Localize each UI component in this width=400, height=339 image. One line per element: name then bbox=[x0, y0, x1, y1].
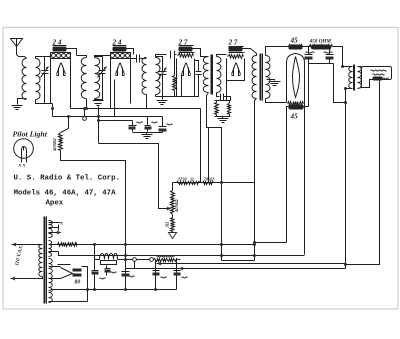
secondary tap resistor feed bbox=[49, 244, 51, 246]
bus y120 bbox=[99, 120, 133, 122]
wire V5 bottom right bbox=[303, 106, 309, 108]
junction x97b bbox=[97, 119, 100, 122]
wire term1 to term2 bbox=[137, 259, 151, 261]
wire G2 stem down bbox=[98, 107, 100, 144]
bus A y263 bbox=[157, 263, 346, 265]
transformer T4 secondary bbox=[217, 57, 222, 93]
tube V1 grid cap bbox=[53, 47, 67, 52]
stem2 wire bbox=[176, 260, 178, 290]
svg-text:4000Ω: 4000Ω bbox=[52, 138, 57, 152]
wire x84 link bbox=[84, 109, 86, 117]
arrow tap into divider bbox=[167, 207, 172, 211]
tube V3 label underline bbox=[179, 45, 194, 47]
bus B arrowhead bbox=[179, 267, 184, 271]
ground G2 bbox=[93, 101, 104, 106]
resistor 450ohm label bbox=[309, 39, 332, 45]
ground G6 bbox=[142, 135, 153, 139]
wire T3 primary bottom bbox=[146, 95, 148, 109]
stem2 cap bbox=[174, 271, 181, 276]
terminal circle 1 bbox=[133, 258, 137, 262]
tube V2 grid coil box bbox=[111, 53, 131, 59]
divider 4050 label bbox=[174, 199, 179, 213]
tube V3 envelope left bbox=[176, 59, 178, 97]
junction x94 bottom bbox=[93, 288, 96, 291]
junction x52 bbox=[51, 107, 54, 110]
terminal x84 bbox=[83, 117, 87, 121]
bypass capacitor C7 label bbox=[137, 122, 143, 123]
wire T6 primary top lead bbox=[343, 66, 353, 68]
wire filter vert x94 bbox=[94, 245, 96, 290]
antenna bbox=[11, 39, 27, 59]
cathode capacitor C6 bbox=[228, 103, 231, 115]
power primary bottom lead bbox=[11, 277, 43, 281]
wire T2 primary bottom bbox=[86, 99, 88, 109]
transformer T5 secondary bbox=[266, 56, 271, 99]
wire Ca stems bbox=[308, 47, 310, 64]
wire C9 stem bbox=[162, 117, 164, 133]
svg-text:4050Ω: 4050Ω bbox=[174, 199, 179, 213]
power secondary winding HV bbox=[49, 259, 53, 303]
secondary tap 3 bbox=[49, 231, 62, 235]
tube V1 label underline bbox=[53, 45, 67, 47]
wire staircase 254 bottom bbox=[222, 260, 255, 262]
wire rail left drop bbox=[308, 64, 310, 107]
divider resistor 2250ohm bbox=[177, 182, 201, 185]
divider resistor 700ohm label bbox=[204, 177, 215, 182]
tube V2 cathode leg bbox=[114, 80, 116, 117]
bypass capacitor C9 label bbox=[167, 124, 173, 125]
tube V2 label underline bbox=[113, 45, 127, 47]
junction T6 primary bottom bbox=[344, 87, 347, 90]
wire C4 top stem bbox=[195, 61, 199, 72]
wire C6 stems bbox=[229, 101, 231, 117]
bus A arrowhead bbox=[157, 262, 162, 266]
capacitor C5 bbox=[221, 94, 224, 101]
tube V1 label 24 bbox=[52, 39, 62, 47]
transformer T4 core bbox=[212, 55, 213, 95]
wire bus x345 bbox=[345, 89, 347, 269]
wire VC1 top stem bbox=[44, 57, 46, 71]
tube V5 grid resistor bbox=[289, 45, 303, 50]
loud speaker box bbox=[362, 67, 392, 88]
bus y115 bbox=[53, 116, 163, 118]
wire T1 secondary bottom bbox=[36, 100, 53, 104]
secondary tap 1 bbox=[49, 222, 64, 227]
divider resistor 700ohm bbox=[203, 182, 214, 185]
hum capacitor Ca bbox=[305, 55, 313, 60]
wire choke left bbox=[95, 259, 100, 261]
label 110VAC bbox=[14, 243, 25, 266]
choke shunt cap C11 bbox=[105, 269, 111, 273]
divider resistor 2250 label2 bbox=[157, 256, 175, 257]
wire V5 envelope right drop bbox=[304, 103, 306, 255]
wire term1 down bbox=[126, 262, 136, 269]
secondary bottom tap2 bbox=[49, 301, 51, 303]
divider resistor 2250ohm label bbox=[177, 177, 195, 182]
pilot light bulb bbox=[14, 139, 34, 159]
transformer T4 primary bbox=[203, 57, 208, 93]
wire x52 link bbox=[52, 104, 54, 117]
pilot light leads bbox=[22, 159, 27, 163]
secondary bottom tap1 bbox=[49, 290, 51, 292]
wire V1 grid cap to right bbox=[67, 49, 77, 56]
wire cap row rail bbox=[133, 132, 163, 134]
tube V3 grid coil bbox=[178, 54, 194, 58]
winding resistor on bus bbox=[58, 243, 77, 247]
transformer T1 secondary bbox=[36, 59, 41, 100]
wire T4 primary bottom bbox=[207, 93, 222, 245]
power transformer primary bbox=[39, 245, 43, 277]
ground G3 bbox=[157, 101, 168, 105]
junction bus254 x220 bbox=[220, 254, 223, 257]
tube V2 envelope right bbox=[130, 59, 132, 104]
tube V4 grid cap plate line bbox=[229, 52, 245, 54]
wire staircase 286 bbox=[255, 242, 287, 244]
transformer T6 primary bbox=[349, 67, 353, 89]
junction R3 top bbox=[67, 115, 70, 118]
wire C8 stem bbox=[147, 117, 149, 132]
wire RC bottom rail bbox=[215, 116, 231, 118]
divider top rail bbox=[173, 182, 255, 184]
transformer T5 primary bbox=[252, 56, 257, 99]
junction divider x220 bbox=[220, 181, 223, 184]
wire T2 secondary top bbox=[95, 56, 111, 58]
junction speaker bus bbox=[344, 263, 347, 266]
bypass capacitor C7 bbox=[129, 126, 137, 130]
wire T4 secondary top bbox=[217, 55, 227, 57]
wire chassis box outer bbox=[99, 144, 169, 209]
bus B+ y243 bbox=[51, 244, 255, 246]
tube V4 grid coil bbox=[228, 55, 244, 59]
tube V2 grid cap plate line bbox=[112, 52, 128, 54]
tube V5 label 45 bbox=[290, 37, 299, 45]
wire T3 secondary top bbox=[156, 55, 167, 58]
wire T1 primary bottom to ground bbox=[18, 99, 27, 105]
variable capacitor VC3 bbox=[159, 68, 167, 79]
pilot resistor R3 bbox=[59, 133, 63, 151]
svg-text:2 7: 2 7 bbox=[228, 39, 238, 47]
bypass capacitor C8 label bbox=[152, 122, 158, 123]
tube V3 plate-grid arch bbox=[182, 63, 191, 76]
wire VC2 bottom stem bbox=[95, 74, 103, 100]
wire V2 plate to C2 bbox=[131, 58, 137, 60]
capacitor C12 label bbox=[129, 276, 135, 277]
bypass capacitor C8 bbox=[145, 126, 152, 130]
tube V1 grid coil box bbox=[51, 53, 71, 59]
wire V5 bottom left bbox=[287, 107, 289, 243]
tube V2 envelope left bbox=[110, 59, 112, 109]
tube V3 envelope right bbox=[194, 59, 196, 97]
capacitor C2 bbox=[137, 55, 140, 63]
tube V1 grid cap plate line bbox=[53, 52, 69, 54]
tube V1 envelope left bbox=[50, 59, 52, 104]
wire T5 ground tap bbox=[267, 80, 275, 81]
ground G5 bbox=[269, 82, 281, 86]
divider bottom arrow bbox=[169, 232, 177, 239]
tube V1 plate-grid arch bbox=[57, 63, 66, 76]
junction x97a bbox=[97, 115, 100, 118]
wire V2 grid cap to right bbox=[127, 49, 134, 55]
tube V4 cathode leg bbox=[226, 81, 228, 101]
wire V5 grid res to right bbox=[303, 46, 311, 48]
wire VC2 top stem bbox=[95, 57, 103, 71]
wire T6 primary bottom lead bbox=[346, 88, 353, 90]
filter cap C10 bbox=[92, 271, 99, 275]
loud speaker field resistor bbox=[373, 77, 389, 81]
tube V2 plate-grid arch bbox=[116, 63, 125, 76]
cathode resistor R2 bbox=[215, 103, 219, 115]
divider resistor 4050ohm bbox=[171, 191, 175, 215]
wire x87 link bbox=[87, 290, 89, 302]
hum capacitor Cb bbox=[326, 55, 334, 60]
wire divider left corner bbox=[172, 183, 174, 191]
wire T5 primary bottom bbox=[255, 99, 257, 261]
wire C5 right bbox=[224, 97, 231, 101]
wire T3 bottom rail bbox=[156, 96, 195, 98]
rectifier V6 filament bbox=[61, 268, 73, 279]
wire speaker drop bbox=[346, 81, 380, 265]
divider 300 label bbox=[165, 221, 170, 228]
capacitor C3 bbox=[171, 51, 175, 59]
tube V5 bottom label 45 bbox=[290, 113, 299, 121]
junction bus254 x125 bbox=[124, 254, 127, 257]
svg-text:x: x bbox=[60, 222, 64, 227]
transformer T3 primary bbox=[142, 58, 147, 95]
filter choke core box bbox=[101, 261, 117, 265]
pilot resistor R3 label bbox=[52, 138, 57, 152]
wire bus x220 lower bbox=[221, 245, 223, 261]
wire RC ground stem bbox=[222, 117, 224, 119]
tube V5 filament lens bbox=[293, 57, 300, 98]
svg-text:x x: x x bbox=[18, 163, 26, 169]
bus y108 bbox=[71, 108, 201, 110]
rectifier V6 envelope bbox=[58, 264, 71, 266]
transformer T3 secondary bbox=[156, 58, 161, 95]
junction stem1 bottom bbox=[154, 288, 157, 291]
transformer T6 secondary bbox=[358, 67, 362, 89]
transformer T5 core bbox=[261, 54, 263, 101]
variable capacitor VC2 bbox=[98, 67, 107, 78]
title line3 bbox=[46, 200, 64, 208]
tube V2 grid cap bbox=[113, 47, 127, 52]
wire VC1 bottom stem bbox=[44, 74, 46, 104]
stem2 cap label bbox=[182, 277, 188, 278]
rectifier plate lead bbox=[82, 267, 88, 290]
junction bus243 x220 bbox=[220, 243, 223, 246]
wire C4 bottom stem bbox=[195, 75, 199, 97]
wire T5 secondary top bbox=[266, 47, 289, 56]
hum capacitor Cb label bbox=[324, 52, 333, 53]
bottom bus y289 bbox=[51, 289, 177, 291]
junction T6 primary top bbox=[341, 65, 344, 68]
wire Cb stems bbox=[329, 47, 331, 64]
wire hum caps bottom rail bbox=[309, 63, 334, 65]
tube V4 plate-grid arch bbox=[232, 63, 241, 76]
wire T3 ground stem bbox=[162, 97, 164, 100]
transformer T1 primary bbox=[22, 59, 27, 100]
terminal circle 2 bbox=[150, 258, 154, 262]
title line2 bbox=[14, 190, 117, 198]
tube V2 label 24 bbox=[112, 39, 122, 47]
svg-text:45: 45 bbox=[290, 113, 299, 121]
stem1 wire bbox=[155, 260, 157, 290]
wire C11 stems bbox=[106, 266, 108, 276]
tube V1 envelope right bbox=[70, 59, 72, 109]
wire T2 primary top bbox=[77, 56, 87, 58]
divider resistor 300ohm bbox=[171, 218, 175, 232]
wire divider mid bbox=[172, 215, 174, 218]
transformer T2 primary bbox=[81, 58, 86, 99]
rect filament tap top bbox=[49, 266, 61, 268]
variable capacitor VC1 bbox=[41, 67, 49, 78]
wire C3 right bbox=[175, 54, 177, 56]
junction x125 bottom bbox=[124, 288, 127, 291]
wire C2 to T3 bbox=[140, 58, 147, 60]
junction bus243 x254 bbox=[253, 243, 256, 246]
pilot light X marks bbox=[18, 163, 26, 169]
wire V4 grid cap to right bbox=[243, 49, 257, 56]
bypass capacitor C9 bbox=[159, 127, 167, 132]
wire rail right drop bbox=[334, 64, 346, 103]
svg-text:Pilot Light: Pilot Light bbox=[13, 130, 48, 139]
junction x84a bbox=[83, 107, 88, 110]
wire VC3 top stem bbox=[156, 57, 163, 72]
tube V3 label 27 bbox=[178, 39, 188, 47]
svg-text:450 OHM: 450 OHM bbox=[309, 39, 332, 45]
junction x87 bbox=[86, 243, 96, 291]
loud speaker label bbox=[371, 70, 387, 75]
junction V5 wire bbox=[344, 101, 347, 104]
wire bus x201 bbox=[200, 109, 202, 183]
tube V4 label 27 bbox=[228, 39, 238, 47]
wire rail ground stem bbox=[146, 133, 148, 135]
wire 450ohm right bbox=[333, 47, 343, 67]
wire V3 plate top bbox=[193, 49, 209, 57]
wire choke right bbox=[118, 259, 133, 261]
tube V5 envelope bbox=[287, 54, 305, 103]
power secondary winding mid bbox=[49, 241, 52, 257]
capacitor C4 plates bbox=[196, 72, 202, 75]
grid leak resistor R1 bbox=[173, 76, 177, 91]
wire T2 bottom to ground G2 bbox=[98, 100, 100, 101]
tube V4 label underline bbox=[229, 46, 244, 48]
filter cap C10 label bbox=[100, 278, 106, 279]
svg-text:80: 80 bbox=[75, 280, 81, 286]
wire res right bbox=[178, 259, 181, 261]
junction bus243 x125 bbox=[124, 243, 127, 246]
stem1 cap bbox=[153, 271, 160, 276]
wire R1 top stem bbox=[174, 59, 176, 76]
rectifier label 80 bbox=[75, 280, 81, 286]
junction staircase 286 bbox=[253, 241, 256, 244]
wire R2 stems bbox=[216, 101, 218, 117]
svg-text:3Ω: 3Ω bbox=[165, 221, 170, 228]
svg-text:U. S. Radio & Tel. Corp.: U. S. Radio & Tel. Corp. bbox=[14, 175, 120, 183]
wire R3 bottom bbox=[61, 151, 126, 290]
svg-text:Apex: Apex bbox=[46, 200, 64, 208]
wire C7 stem bbox=[132, 121, 134, 132]
wire divider vert x207 bbox=[208, 128, 210, 183]
stem1 cap label bbox=[161, 277, 167, 278]
wire T4 secondary bottom bbox=[217, 93, 220, 97]
rect filament tap bottom bbox=[49, 278, 61, 280]
tube V4 envelope bbox=[227, 59, 245, 81]
filter choke L1 bbox=[100, 254, 118, 260]
svg-text:Models 46, 46A, 47, 47A: Models 46, 46A, 47, 47A bbox=[14, 190, 117, 198]
transformer T2 secondary bbox=[95, 58, 100, 99]
wire R3 top bbox=[61, 117, 69, 133]
capacitor C12 on x125 bbox=[122, 272, 130, 277]
junction choke x125 bbox=[124, 258, 127, 261]
wire VC3 bottom stem bbox=[162, 75, 164, 97]
power primary top lead bbox=[12, 243, 43, 247]
hum capacitor Ca label bbox=[306, 52, 315, 53]
svg-text:45: 45 bbox=[290, 37, 299, 45]
secondary tap bus254 bbox=[49, 251, 59, 253]
wire T3 secondary bottom bbox=[155, 95, 157, 97]
tube V3 grid cap bbox=[179, 47, 193, 52]
transformer T6 core bbox=[354, 65, 355, 91]
divider resistor bus bbox=[154, 259, 178, 262]
secondary tap 2 bbox=[49, 225, 59, 231]
power transformer core bbox=[45, 217, 47, 304]
bus y254 bbox=[59, 252, 305, 256]
ground G4 bbox=[218, 119, 229, 123]
ground G1 bbox=[12, 106, 23, 110]
tube V4 grid cap bbox=[229, 47, 243, 52]
bus B y268 bbox=[136, 268, 346, 270]
wire R1 bottom stem bbox=[174, 91, 176, 97]
power secondary winding top bbox=[49, 221, 53, 238]
title line1 bbox=[14, 175, 120, 183]
wire T5 secondary bottom bbox=[266, 99, 287, 103]
choke cap C11 label bbox=[111, 272, 117, 273]
tube V3 grid cap plate line bbox=[179, 52, 195, 54]
wire RC top rail bbox=[215, 100, 231, 102]
tube V5 cathode resistor bbox=[288, 102, 304, 110]
wire T1 secondary top bbox=[36, 57, 51, 59]
resistor 450ohm bbox=[309, 45, 333, 50]
bottom bus y300 bbox=[51, 301, 88, 303]
rectifier V6 plates bbox=[73, 269, 82, 277]
junction bus254 x254 bbox=[253, 254, 256, 257]
tube V3 cathode legs bbox=[181, 75, 183, 97]
pilot light label bbox=[13, 130, 48, 139]
wire speaker to T6 top bbox=[358, 67, 362, 89]
